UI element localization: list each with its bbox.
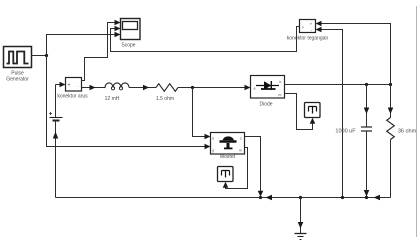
svg-text:a: a (254, 87, 256, 91)
dc voltage source branch: wire into konektor arus (56, 84, 61, 86)
resistor R 1.5 ohm (156, 84, 178, 92)
arrow left on ground rail into capacitor node (374, 195, 381, 201)
pulse generator icon (square wave) (7, 52, 29, 64)
wire: inductor to series resistor (129, 87, 156, 89)
wire: konektor tegangan v output to Scope input 2 (111, 27, 300, 52)
wire: diode cathode to output node (top rail) (285, 84, 391, 86)
svg-text:konektor tegangan: konektor tegangan (287, 35, 329, 41)
wire: J1 up and right to Scope input 3 (47, 35, 116, 56)
wire: mosfet source to ground rail (245, 137, 261, 192)
pulse generator block (4, 47, 32, 68)
svg-text:1.5 ohm: 1.5 ohm (156, 96, 174, 102)
wire: diode m output to terminator T1 (285, 94, 313, 130)
ground rail wire (56, 197, 391, 199)
wire: konektor arus i output up to Scope input 1 (82, 23, 116, 81)
wire: dc source top (55, 85, 57, 118)
wire: konektor arus output to inductor (82, 87, 103, 89)
wire: konektor tegangan - input from ground rail (321, 30, 343, 198)
svg-text:k: k (280, 80, 282, 84)
svg-text:Diode: Diode (259, 102, 272, 108)
svg-text:12 mH: 12 mH (105, 96, 120, 102)
svg-text:v: v (302, 26, 304, 30)
capacitor plates (361, 126, 372, 128)
diode D1 block (251, 76, 285, 99)
inductor L 12 mH (103, 83, 130, 88)
current measurement block konektor arus (66, 78, 82, 92)
svg-text:36 ohm: 36 ohm (398, 129, 417, 135)
load resistor R 36 ohm branch (389, 83, 392, 86)
voltage measurement block konektor tegangan (300, 20, 316, 33)
wire: konektor tegangan + input from top rail node (321, 24, 391, 85)
scope screen (123, 22, 138, 30)
svg-text:g: g (212, 149, 214, 153)
dc voltage source battery symbol (49, 112, 52, 115)
junction dot on ground rail at konektor tegangan - wire (341, 196, 344, 199)
svg-text:m: m (239, 149, 242, 153)
wire: J1 down and right to Mosfet gate (47, 56, 206, 147)
ground branch (299, 196, 302, 199)
diode icon (256, 85, 279, 87)
scope input arrows (115, 20, 121, 26)
mosfet icon (223, 136, 235, 140)
wire: mosfet m output to terminator T2 (226, 148, 248, 189)
arrow up on dc branch (53, 132, 58, 139)
canvas right border (416, 6, 418, 237)
svg-text:Mosfet: Mosfet (220, 154, 236, 160)
mosfet Q1 block (211, 133, 245, 155)
node J1 junction dot (45, 54, 48, 57)
svg-text:+: + (310, 22, 313, 27)
capacitor C 1000 uF branch (365, 83, 368, 86)
arrow left on ground rail into mosfet node (266, 195, 273, 201)
wire: dc source bottom to ground rail (55, 122, 57, 198)
svg-text:Scope: Scope (121, 43, 135, 49)
wire: resistor to Diode anode (178, 87, 245, 89)
wire: pulse generator output to junction J1 (32, 55, 47, 57)
terminator T1 block (305, 103, 321, 118)
terminator T2 icon (222, 171, 230, 178)
wire: node A down to Mosfet drain (193, 88, 206, 137)
ground symbol (295, 233, 307, 235)
svg-text:konektor arus: konektor arus (57, 94, 88, 100)
resistor zigzag (387, 118, 395, 140)
svg-text:d: d (212, 137, 214, 141)
scope block (121, 19, 141, 40)
svg-text:1000 uF: 1000 uF (335, 129, 356, 135)
svg-text:s: s (240, 137, 242, 141)
svg-text:m: m (279, 93, 282, 97)
svg-text:+: + (67, 83, 70, 89)
node A junction dot (191, 86, 194, 89)
terminator T2 block (218, 167, 234, 182)
svg-text:Generator: Generator (6, 77, 29, 83)
terminator T1 icon (309, 107, 317, 114)
